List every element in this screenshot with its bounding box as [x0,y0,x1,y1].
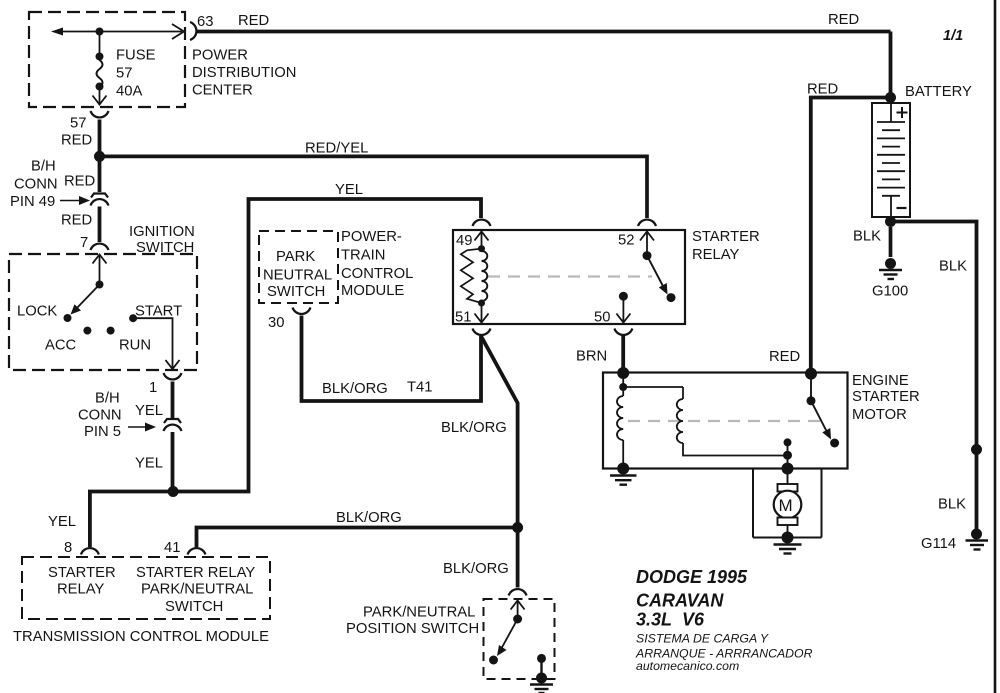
fuse F57 40A [96,48,156,100]
svg-text:PIN 49: PIN 49 [10,194,55,210]
svg-text:MOTOR: MOTOR [852,407,907,423]
svg-text:PARK/NEUTRAL: PARK/NEUTRAL [141,582,253,598]
svg-text:41: 41 [164,540,180,556]
wire START to pin 1 [133,318,179,369]
ground G114 [966,529,989,550]
relay coil + resistor [461,245,488,306]
battery [872,84,972,227]
svg-text:ACC: ACC [45,338,77,354]
svg-text:PIN 5: PIN 5 [84,424,121,440]
svg-text:8: 8 [64,540,72,556]
node YEL junction [168,486,179,497]
svg-text:1: 1 [149,380,157,396]
wire YEL junction to TCM pin 8 [90,492,173,548]
svg-text:YEL: YEL [335,182,363,198]
svg-text:1/1: 1/1 [943,28,963,44]
inline connector B/H pin 49 [91,194,109,206]
svg-text:57: 57 [70,116,86,132]
node BLK/ORG junction [512,522,523,533]
svg-text:RED: RED [61,213,92,229]
wire BLK battery to G114 [891,222,977,530]
svg-text:PARK/NEUTRAL: PARK/NEUTRAL [363,605,475,621]
svg-text:RUN: RUN [119,338,151,354]
svg-text:CONN: CONN [78,408,122,424]
bottom title text [635,567,813,673]
svg-text:RED: RED [828,12,859,28]
svg-text:63: 63 [197,14,213,30]
wire RED battery feed (top) [196,30,891,34]
motor M [774,469,802,538]
svg-text:7: 7 [80,235,88,251]
pin 52 connector [638,220,656,226]
svg-text:DODGE 1995: DODGE 1995 [636,567,748,587]
svg-text:30: 30 [268,315,284,331]
svg-text:RED: RED [807,82,838,98]
wire YEL ignition down [171,382,175,420]
svg-text:3.3L V6: 3.3L V6 [636,610,705,630]
ground G100 [879,258,902,279]
svg-text:BLK: BLK [853,229,881,245]
svg-text:STARTER: STARTER [852,389,920,405]
transmission control module box [13,557,270,645]
node RED entry [805,368,817,380]
relay pin 50 [594,292,630,326]
svg-text:CONTROL: CONTROL [341,266,413,282]
pin 51 connector [473,329,491,335]
node fuse bus tap [96,28,104,36]
node ground-side [617,463,629,475]
svg-text:RELAY: RELAY [692,247,740,263]
pns pin arrow [511,601,525,620]
svg-text:BATTERY: BATTERY [905,84,972,100]
ground pns [530,673,553,693]
power distribution center box [29,12,296,107]
svg-text:FUSE: FUSE [116,48,156,64]
svg-text:STARTER: STARTER [692,229,760,245]
motor switch [807,374,840,448]
svg-text:RED: RED [769,349,800,365]
ignition pin 7 arrow [93,255,107,285]
pin 63 connector [190,14,213,40]
svg-text:RELAY: RELAY [57,582,105,598]
svg-text:START: START [135,304,182,320]
relay pin 51 arrow [455,303,489,326]
svg-text:automecanico.com: automecanico.com [636,659,739,673]
pin 1 connector [149,373,182,396]
svg-text:RED/YEL: RED/YEL [305,141,368,157]
svg-text:TRANSMISSION CONTROL MODULE: TRANSMISSION CONTROL MODULE [13,629,269,645]
wire RED conn to ignition [98,207,102,243]
svg-text:YEL: YEL [135,456,163,472]
svg-text:DISTRIBUTION: DISTRIBUTION [192,65,296,81]
svg-text:SISTEMA DE CARGA Y: SISTEMA DE CARGA Y [636,632,769,646]
pin arrow out of fuse box [93,90,107,105]
svg-text:BLK/ORG: BLK/ORG [441,420,507,436]
fuse bus wire with arrows [51,24,184,39]
svg-text:BLK/ORG: BLK/ORG [336,510,402,526]
svg-text:RED: RED [238,13,269,29]
pns switch arm [489,615,522,665]
svg-text:49: 49 [456,233,472,249]
svg-text:SWITCH: SWITCH [267,284,325,300]
ignition switch box [9,254,197,370]
wire bus to fuse [99,32,101,57]
svg-text:50: 50 [594,310,610,326]
wire RED battery to motor [811,98,891,373]
inline connector B/H pin 5 [164,419,182,431]
svg-text:CENTER: CENTER [192,83,253,99]
svg-text:POWER: POWER [192,48,248,64]
svg-text:BLK: BLK [938,497,966,513]
wire RED fuse to junction [98,120,102,193]
svg-text:IGNITION: IGNITION [129,224,195,240]
svg-text:B/H: B/H [95,391,120,407]
svg-text:LOCK: LOCK [17,304,57,320]
svg-text:CONN: CONN [14,177,58,193]
pin 7 connector [80,235,109,251]
pns right contact to ground [537,654,546,676]
motor contact chain [783,438,792,468]
svg-text:NEUTRAL: NEUTRAL [263,268,332,284]
node motor feed [782,463,794,475]
node LOCK [64,314,72,322]
B/H CONN PIN 5 label [78,391,156,441]
wire BLK battery to G100 [889,227,893,257]
svg-text:STARTER RELAY: STARTER RELAY [136,565,255,581]
svg-text:G114: G114 [921,536,956,552]
ground engine left [610,476,637,485]
motor sub frame [753,469,822,538]
svg-text:ENGINE: ENGINE [852,373,909,389]
pns connector [509,589,527,595]
svg-text:PARK: PARK [276,249,315,265]
ignition switch arm to LOCK [71,281,104,315]
svg-text:G100: G100 [872,284,908,300]
svg-text:CARAVAN: CARAVAN [636,591,724,611]
relay switch arm [643,251,676,302]
svg-text:SWITCH: SWITCH [165,599,223,615]
node RUN [107,327,115,335]
svg-text:POWER-: POWER- [341,229,402,245]
svg-text:BLK/ORG: BLK/ORG [443,561,509,577]
wire YEL to junction [171,432,175,492]
pin 41 connector [164,540,206,556]
svg-text:BRN: BRN [576,349,607,365]
svg-text:BLK: BLK [939,259,967,275]
svg-text:T41: T41 [407,380,433,396]
pin 8 connector [64,540,99,556]
svg-text:BLK/ORG: BLK/ORG [322,381,388,397]
svg-text:RED: RED [61,133,92,149]
wire BRN relay 50 to motor [621,336,625,371]
pin 50 connector [614,329,632,335]
svg-text:TRAIN: TRAIN [341,248,385,264]
motor linkage dashed [628,420,820,422]
svg-text:YEL: YEL [135,403,163,419]
node ACC [83,327,91,335]
svg-text:57: 57 [116,66,132,82]
svg-text:51: 51 [455,310,471,326]
svg-text:52: 52 [618,233,634,249]
relay pin 49 arrow [456,232,489,250]
wire BLK/ORG T41 pin30 to relay pin 51 [302,316,482,402]
pin 30 connector [268,308,311,332]
svg-text:MODULE: MODULE [341,283,404,299]
page right border [994,0,997,693]
wire BLK/ORG relay 51 diagonal [481,336,518,588]
park/neutral position switch box [346,599,555,679]
svg-text:YEL: YEL [48,514,76,530]
B/H CONN PIN 49 label [10,159,90,211]
engine starter motor box [603,373,920,469]
svg-text:STARTER: STARTER [48,565,116,581]
node RED/YEL tap [94,151,105,162]
relay pin 52 arrow [618,232,654,256]
node START [129,314,137,322]
wire YEL junction to relay pin 49 [173,199,481,492]
ground motor [774,532,802,554]
wire RED/YEL to relay pin 52 [100,156,648,218]
wire BLK/ORG tcm 41 horizontal [197,528,518,548]
node BLK splice [971,444,982,455]
starter relay box [453,229,760,324]
node BRN entry [617,367,629,379]
svg-text:RED: RED [64,174,95,190]
pin 57 connector under fuse box [61,111,109,149]
pin 49 connector [473,220,491,226]
relay linkage dashed [488,275,652,277]
svg-text:M: M [779,496,793,515]
svg-text:POSITION SWITCH: POSITION SWITCH [346,621,479,637]
svg-text:40A: 40A [116,84,142,100]
svg-text:B/H: B/H [31,159,56,175]
park neutral switch box (PCM) [259,229,413,303]
motor solenoid coils [617,373,788,469]
